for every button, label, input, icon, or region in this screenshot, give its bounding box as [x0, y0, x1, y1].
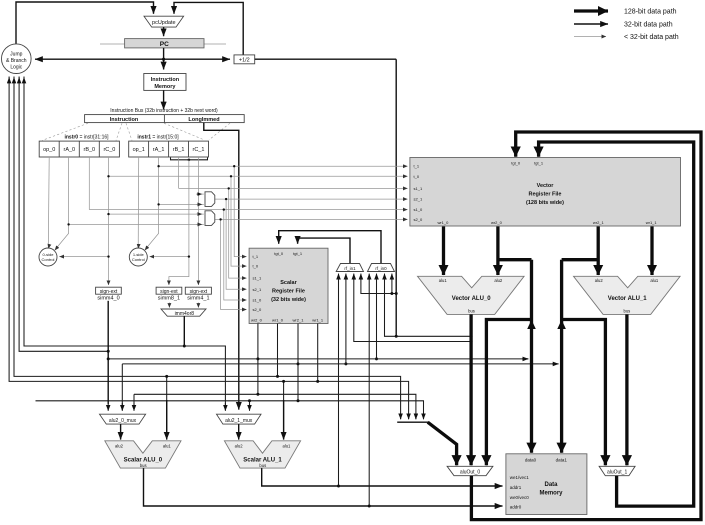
svg-text:alu2: alu2	[235, 443, 244, 448]
svg-text:Instruction: Instruction	[151, 77, 180, 83]
svg-text:Memory: Memory	[154, 84, 176, 90]
svg-text:t_0: t_0	[253, 264, 259, 269]
svg-text:wr2_0: wr2_0	[491, 220, 503, 225]
svg-text:Jump: Jump	[10, 52, 22, 58]
svg-text:simm8_1: simm8_1	[158, 296, 180, 302]
svg-text:aluOut_1: aluOut_1	[607, 470, 628, 476]
svg-text:s1_1: s1_1	[253, 276, 262, 281]
svg-text:s1_1: s1_1	[414, 186, 423, 191]
svg-text:+1/2: +1/2	[239, 58, 250, 64]
svg-text:t_1: t_1	[253, 254, 259, 259]
svg-text:& Branch: & Branch	[6, 58, 27, 64]
svg-text:alu2_1_mux: alu2_1_mux	[225, 418, 253, 424]
svg-text:bus: bus	[259, 463, 266, 468]
svg-text:32-bit data path: 32-bit data path	[624, 22, 673, 29]
svg-text:imm4or8: imm4or8	[175, 311, 195, 317]
svg-text:wr1_0: wr1_0	[272, 318, 284, 323]
svg-text:s1_0: s1_0	[253, 298, 262, 303]
svg-text:s2_0: s2_0	[253, 307, 262, 312]
svg-text:< 32-bit data path: < 32-bit data path	[624, 34, 679, 41]
svg-text:bus: bus	[140, 463, 147, 468]
svg-text:(32 bits wide): (32 bits wide)	[271, 297, 306, 303]
svg-text:wr1_1: wr1_1	[312, 318, 324, 323]
svg-text:rA_1: rA_1	[153, 147, 165, 153]
svg-text:s2_0: s2_0	[414, 217, 423, 222]
svg-text:Data: Data	[544, 482, 558, 488]
svg-text:alu2_0_mux: alu2_0_mux	[109, 418, 137, 424]
svg-text:Control: Control	[42, 257, 55, 262]
svg-text:(128 bits wide): (128 bits wide)	[526, 200, 564, 206]
svg-text:sign-ext: sign-ext	[190, 289, 208, 295]
svg-text:addr1: addr1	[510, 485, 522, 490]
svg-text:128-bit data path: 128-bit data path	[624, 9, 677, 16]
svg-text:rA_0: rA_0	[63, 147, 75, 153]
svg-text:we0/vec0: we0/vec0	[510, 495, 530, 500]
svg-text:bus: bus	[468, 308, 475, 313]
svg-text:simm4_0: simm4_0	[97, 296, 119, 302]
svg-text:op_1: op_1	[133, 147, 145, 153]
svg-text:rf_in1: rf_in1	[344, 266, 356, 271]
svg-text:tgt_0: tgt_0	[511, 161, 521, 166]
svg-text:tgt_1: tgt_1	[534, 161, 544, 166]
svg-text:wr1_0: wr1_0	[437, 220, 449, 225]
svg-text:op_0: op_0	[43, 147, 55, 153]
svg-text:alu2: alu2	[595, 278, 604, 283]
svg-text:Register File: Register File	[528, 192, 561, 198]
svg-text:Vector: Vector	[537, 183, 555, 189]
svg-text:rC_1: rC_1	[193, 147, 205, 153]
svg-text:Control: Control	[132, 257, 145, 262]
svg-text:we1/vec1: we1/vec1	[510, 475, 530, 480]
svg-text:sign-ext: sign-ext	[160, 289, 178, 295]
svg-text:wr2_1: wr2_1	[293, 318, 305, 323]
svg-text:tgt_0: tgt_0	[274, 251, 284, 256]
svg-text:alu1: alu1	[439, 278, 448, 283]
svg-text:wr2_0: wr2_0	[251, 318, 263, 323]
svg-text:s2_1: s2_1	[414, 197, 423, 202]
svg-text:rB_1: rB_1	[173, 147, 185, 153]
svg-text:Vector ALU_0: Vector ALU_0	[452, 296, 491, 302]
svg-text:Register File: Register File	[272, 289, 305, 295]
svg-text:wr1_1: wr1_1	[646, 220, 658, 225]
svg-text:instr0 = instr[31:16]: instr0 = instr[31:16]	[64, 135, 109, 141]
svg-text:aluOut_0: aluOut_0	[460, 470, 481, 476]
svg-text:data0: data0	[525, 457, 537, 462]
svg-text:s1_0: s1_0	[414, 207, 423, 212]
svg-text:sign-ext: sign-ext	[100, 289, 118, 295]
svg-text:s2_1: s2_1	[253, 287, 262, 292]
svg-text:alu2: alu2	[115, 443, 124, 448]
svg-text:alu2: alu2	[494, 278, 503, 283]
svg-text:rC_0: rC_0	[103, 147, 115, 153]
svg-text:data1: data1	[556, 457, 568, 462]
svg-text:addr0: addr0	[510, 505, 522, 510]
svg-text:alu1: alu1	[650, 278, 659, 283]
svg-text:t_1: t_1	[414, 164, 420, 169]
svg-text:bus: bus	[624, 308, 631, 313]
svg-text:pcUpdate: pcUpdate	[152, 20, 176, 26]
svg-text:alu1: alu1	[282, 443, 291, 448]
svg-text:wr2_1: wr2_1	[593, 220, 605, 225]
svg-text:Memory: Memory	[539, 491, 563, 497]
svg-text:instr1 = instr[15:0]: instr1 = instr[15:0]	[137, 135, 179, 141]
svg-text:Instruction Bus (32b instructi: Instruction Bus (32b instruction + 32b n…	[110, 108, 218, 114]
svg-text:rB_0: rB_0	[83, 147, 95, 153]
svg-text:PC: PC	[160, 41, 169, 48]
svg-text:Scalar: Scalar	[280, 280, 297, 286]
svg-text:Vector ALU_1: Vector ALU_1	[608, 296, 647, 302]
svg-text:rf_in0: rf_in0	[375, 266, 387, 271]
svg-text:simm4_1: simm4_1	[187, 296, 209, 302]
svg-text:Logic: Logic	[10, 65, 22, 71]
svg-text:LongImmed: LongImmed	[188, 117, 219, 123]
svg-text:t_0: t_0	[414, 174, 420, 179]
svg-text:Instruction: Instruction	[110, 117, 139, 123]
svg-text:alu1: alu1	[163, 443, 172, 448]
svg-text:tgt_1: tgt_1	[293, 251, 303, 256]
